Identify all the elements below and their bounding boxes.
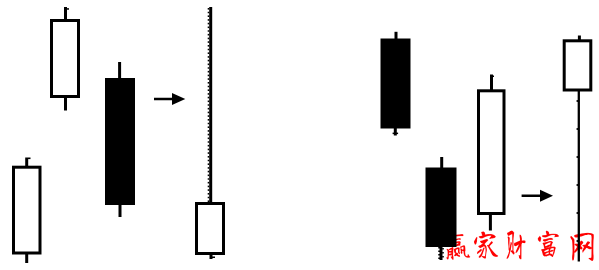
- candle 2 (white, lower-left) body (white/hollow): [14, 167, 41, 253]
- watermark character 赢: [444, 232, 470, 260]
- candle 8 long lower shadow: [578, 90, 580, 262]
- candle 3 upper wick: [118, 62, 121, 80]
- candle 4 long upper shadow: [209, 7, 212, 204]
- candle 4 lower wick: [210, 253, 213, 259]
- candle 6 (black bearish, lower) body (black/filled): [426, 168, 457, 248]
- candle 4 upper shadow jagged ticks: [207, 8, 209, 203]
- candle 5 (black bearish, top of right group) body (black/filled): [381, 39, 411, 129]
- watermark text "赢家财富网" (red running-script): [444, 231, 593, 261]
- candle 5 lower wick cross tick: [393, 133, 399, 135]
- candle 6 lower wick: [440, 245, 443, 260]
- candle 8 upper wick: [578, 36, 581, 42]
- candle 6 upper wick: [440, 157, 443, 169]
- candle 3 (black bearish, middle) body (black/filled): [105, 78, 135, 205]
- candle 1 upper wick: [64, 7, 67, 21]
- candle 6 lower wick jagged ticks: [438, 247, 440, 260]
- watermark character 富: [538, 231, 559, 257]
- candle 3 lower wick: [119, 203, 122, 217]
- candle 7 lower wick: [489, 213, 492, 231]
- watermark character 财: [507, 231, 526, 259]
- candle 4 (small white, long upper shadow) body (white/hollow): [197, 204, 224, 254]
- candle 1 upper wick top tick: [65, 8, 69, 10]
- candle 7 (tall white bullish) body (white/hollow): [479, 91, 505, 214]
- arrow 2 (right group, points right): [522, 190, 553, 202]
- candle 2 upper wick top tick: [26, 158, 31, 160]
- candle 2 lower wick: [25, 252, 28, 263]
- watermark character 家: [474, 232, 498, 259]
- candle 4 lower wick tick: [211, 257, 215, 259]
- candle 8 (white hammer, long lower shadow) body (white/hollow): [564, 41, 591, 90]
- candle 5 lower wick: [394, 126, 397, 136]
- candle 5 upper wick: [395, 32, 398, 40]
- arrow 1 (left group, points right): [154, 93, 185, 105]
- candle 2 upper wick: [25, 158, 28, 169]
- candle 7 upper wick: [490, 75, 493, 92]
- candle 8 lower shadow sparse ticks: [576, 100, 578, 255]
- watermark character 网: [571, 233, 594, 261]
- candle 7 upper wick top tick: [490, 76, 494, 78]
- candle 1 lower wick: [64, 96, 67, 111]
- candle 1 (tall white bullish) body (white/hollow): [52, 21, 79, 97]
